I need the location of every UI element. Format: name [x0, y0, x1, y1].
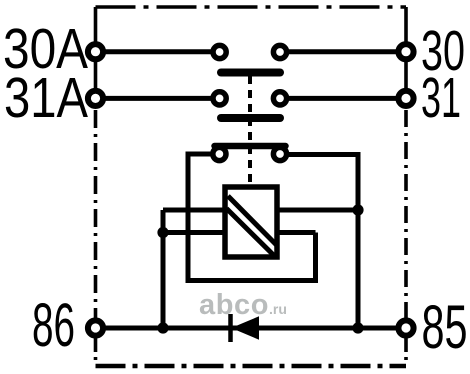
junction: [157, 322, 168, 333]
wire row3 left contact to coil lower rail: [188, 154, 316, 281]
watermark: [199, 289, 287, 321]
junction: [352, 322, 363, 333]
wire 86 to 85 (bottom): [96, 326, 407, 331]
diode: [231, 314, 259, 342]
wire 31A to contact: [96, 96, 220, 101]
contact pair row1 (30A-30): [213, 45, 287, 58]
svg-text:86: 86: [32, 291, 75, 359]
wire coil upper rail: [163, 208, 358, 213]
wire row3 right contact down to 85 rail: [287, 155, 358, 329]
movable contact bar row2: [221, 114, 280, 122]
wire left vertical 163 down to 86 wire: [161, 210, 166, 328]
wire contact to 31: [280, 96, 406, 101]
relay coil: [225, 187, 277, 257]
svg-text:85: 85: [422, 293, 468, 361]
terminal 86: [88, 320, 103, 335]
svg-text:.ru: .ru: [269, 301, 287, 317]
junction: [157, 227, 168, 238]
contact row3 left: [213, 147, 226, 160]
wire contact to 30: [280, 49, 406, 54]
wire coil lower rail: [163, 230, 316, 235]
mechanical link (dashed): [248, 76, 252, 186]
contact bridge bar row3: [215, 143, 286, 150]
junction: [352, 204, 363, 215]
relay housing outline (dash-dot box): [96, 7, 407, 366]
contact pair row2 (31A-31): [213, 92, 287, 105]
contact row3 right: [273, 147, 286, 160]
wire 30A to contact: [96, 49, 220, 54]
svg-text:31: 31: [421, 66, 461, 130]
terminal 31A: [88, 91, 103, 106]
terminal 30: [398, 44, 413, 59]
svg-text:31A: 31A: [4, 66, 88, 130]
terminal 85: [398, 320, 413, 335]
svg-text:abco: abco: [199, 289, 269, 321]
movable contact bar row1: [221, 69, 280, 77]
terminal 30A: [88, 44, 103, 59]
terminal 31: [398, 91, 413, 106]
